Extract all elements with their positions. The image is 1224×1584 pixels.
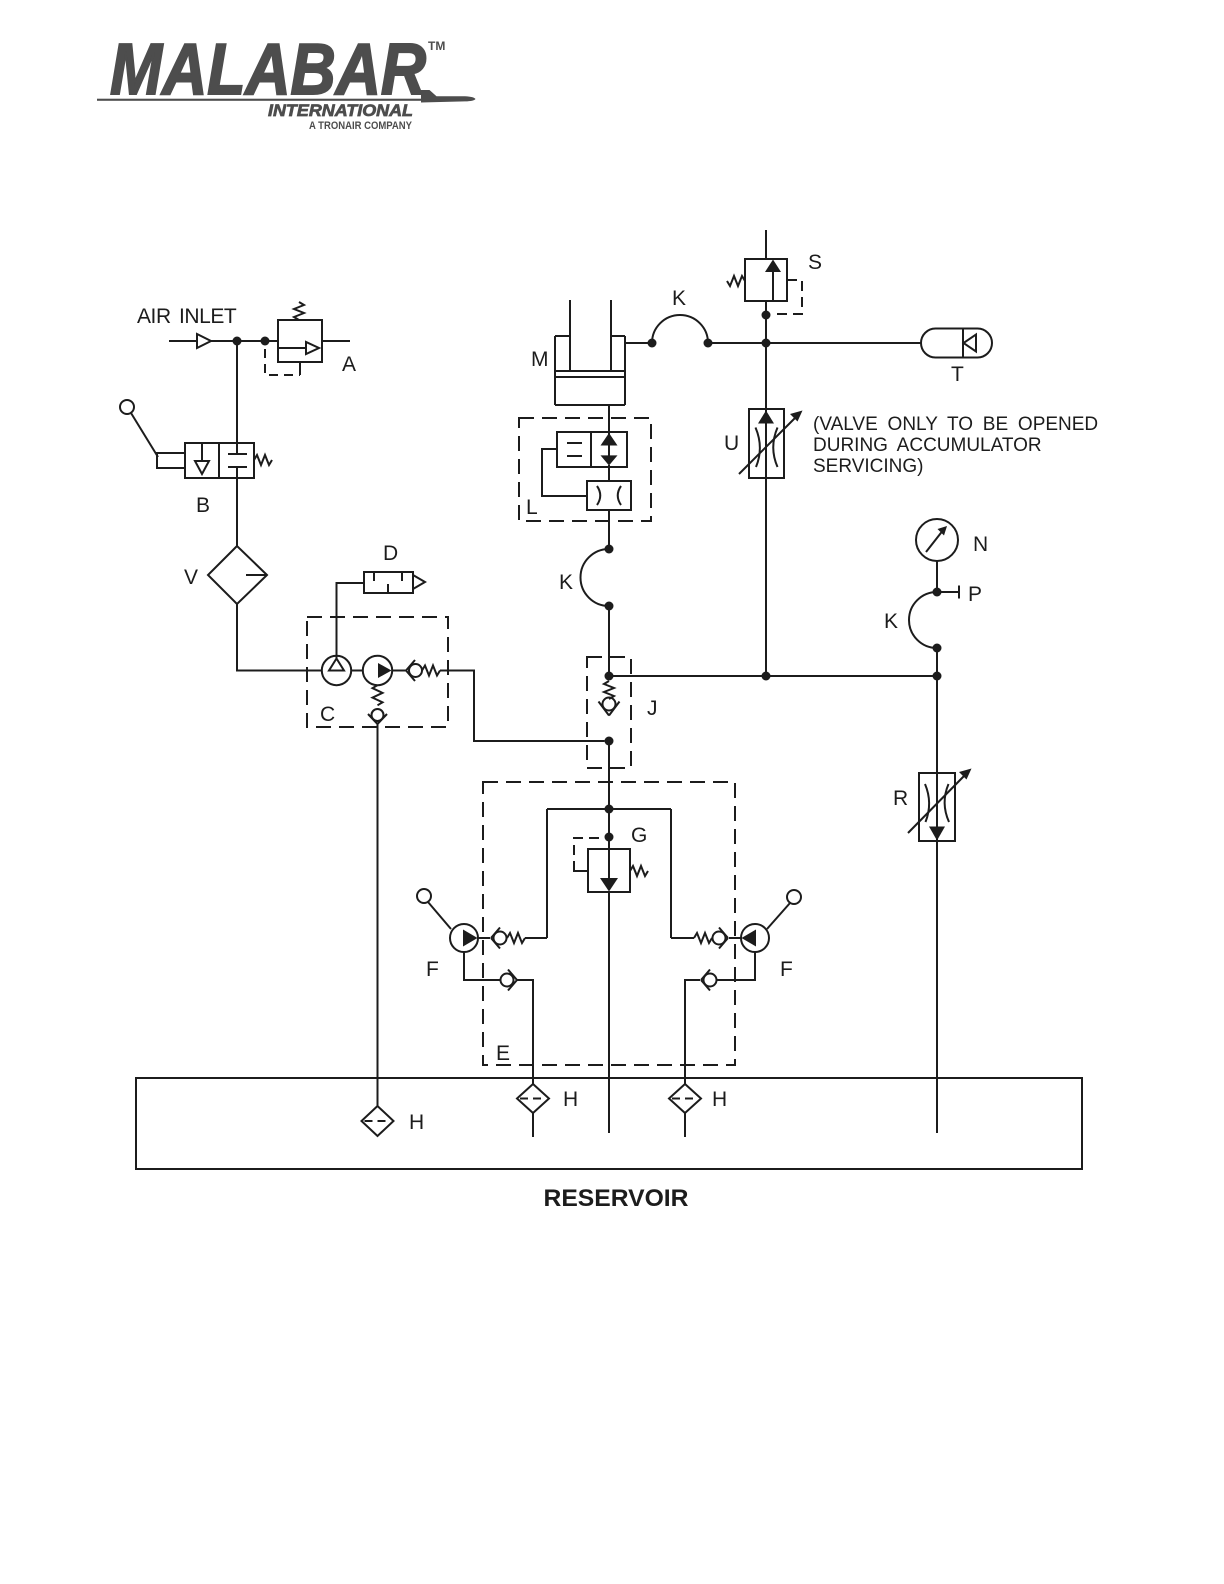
- pump C suction spring: [373, 685, 383, 705]
- quick-disconnect D body: [364, 572, 413, 593]
- svg-text:C: C: [320, 703, 335, 726]
- relief valve S body: [745, 259, 787, 301]
- check valve J enclosure: [587, 657, 631, 768]
- node J outlet: [605, 737, 614, 746]
- solenoid valve L enclosure: [519, 418, 651, 521]
- wire G to reservoir: [608, 892, 610, 1133]
- valve B right position box: [219, 443, 254, 478]
- wire L outlet: [608, 510, 610, 549]
- valve B blocked ports: [228, 453, 247, 455]
- svg-text:H: H: [712, 1088, 727, 1111]
- solenoid valve L poppet: [591, 432, 627, 467]
- node hose K end: [704, 339, 713, 348]
- check valve F right suction: [704, 974, 717, 987]
- svg-text:P: P: [968, 583, 982, 606]
- valve B spring: [254, 455, 272, 465]
- node inlet junction: [233, 337, 242, 346]
- wire manifold to valve R: [936, 676, 938, 841]
- wire F right suction to reservoir: [685, 980, 700, 1084]
- svg-text:INTERNATIONAL: INTERNATIONAL: [268, 102, 413, 120]
- node regulator tap junction: [261, 337, 270, 346]
- cylinder M port wire: [625, 342, 652, 344]
- flow control R body: [919, 773, 955, 841]
- svg-text:F: F: [426, 958, 439, 981]
- regulator A body: [278, 320, 322, 362]
- strainer H right: [669, 1084, 701, 1113]
- node gauge port: [933, 588, 942, 597]
- svg-text:A: A: [342, 353, 356, 376]
- wire F left suction to reservoir: [517, 980, 533, 1084]
- svg-text:E: E: [496, 1042, 510, 1065]
- svg-text:D: D: [383, 542, 398, 565]
- air motor C: [322, 656, 351, 685]
- check valve F right outlet: [719, 928, 728, 949]
- svg-text:RESERVOIR: RESERVOIR: [544, 1185, 689, 1212]
- filter V diamond: [208, 546, 267, 604]
- wire J to hand pump manifold: [608, 741, 610, 849]
- svg-text:F: F: [780, 958, 793, 981]
- svg-text:SERVICING): SERVICING): [813, 456, 924, 477]
- spring F left outlet: [507, 933, 525, 943]
- spring F right outlet: [694, 933, 712, 943]
- hand pump manifold enclosure E: [483, 782, 735, 1065]
- check valve J ball: [603, 698, 616, 711]
- svg-text:G: G: [631, 824, 647, 847]
- wire valve B to filter V: [236, 478, 238, 546]
- wire F right suction: [717, 952, 755, 980]
- node manifold right: [933, 672, 942, 681]
- wire header to valve U: [765, 343, 767, 478]
- valve B lever knob: [120, 400, 134, 414]
- wire F left to header: [525, 937, 547, 939]
- relief valve G spring: [630, 866, 648, 876]
- needle valve U adjust arrow: [739, 417, 796, 474]
- wire header right branch: [670, 809, 672, 938]
- svg-text:A TRONAIR COMPANY: A TRONAIR COMPANY: [309, 120, 413, 132]
- svg-text:TM: TM: [428, 39, 445, 53]
- valve B vent arrow: [201, 443, 203, 461]
- wire inlet to regulator A: [211, 340, 278, 342]
- svg-text:N: N: [973, 533, 988, 556]
- logo underline: [97, 99, 425, 101]
- check valve C suction: [372, 709, 384, 721]
- gauge N: [916, 519, 958, 561]
- solenoid valve L coil: [557, 432, 591, 467]
- svg-text:M: M: [531, 348, 549, 371]
- wire K to manifold: [936, 648, 938, 676]
- test port P: [941, 591, 959, 593]
- air inlet arrow: [197, 334, 211, 348]
- svg-text:K: K: [559, 571, 573, 594]
- wire L drop from cylinder: [608, 405, 610, 432]
- node header junction: [762, 339, 771, 348]
- node J inlet: [605, 672, 614, 681]
- pump unit C enclosure: [307, 617, 448, 727]
- relief valve S pilot: [772, 280, 802, 314]
- wire C suction to reservoir: [377, 724, 379, 1106]
- accumulator T shell: [921, 329, 992, 358]
- valve B actuator bracket: [157, 453, 185, 468]
- valve B left position box: [185, 443, 219, 478]
- svg-text:V: V: [184, 566, 198, 589]
- cylinder M rods: [569, 300, 571, 370]
- node hose K mid top: [605, 545, 614, 554]
- wire F right to header: [671, 937, 694, 939]
- cylinder M gland collars: [555, 335, 570, 337]
- wire main header: [708, 342, 921, 344]
- regulator A outlet wire: [322, 340, 350, 342]
- check valve J spring: [604, 681, 614, 699]
- hose K right: [909, 592, 937, 648]
- cylinder M barrel: [554, 336, 556, 405]
- wire air inlet: [169, 340, 197, 342]
- relief valve G body: [588, 849, 630, 892]
- valve B lever arm: [131, 413, 158, 457]
- solenoid valve L pilot wire: [542, 449, 587, 496]
- svg-text:J: J: [647, 697, 658, 720]
- node S pilot junction: [762, 311, 771, 320]
- relief valve G pilot: [574, 838, 599, 868]
- strainer H left: [362, 1106, 394, 1136]
- svg-text:B: B: [196, 494, 210, 517]
- svg-text:H: H: [563, 1088, 578, 1111]
- wire header left branch: [546, 809, 548, 938]
- check valve F left suction: [501, 974, 514, 987]
- wire C outlet to valve J: [440, 671, 605, 742]
- reservoir tank: [136, 1078, 1082, 1169]
- relief valve S spring: [727, 276, 745, 286]
- node M port: [648, 339, 657, 348]
- svg-text:K: K: [884, 610, 898, 633]
- check valve C outlet spring: [422, 666, 440, 676]
- svg-text:L: L: [526, 496, 538, 519]
- wire K to check valve J: [608, 606, 610, 676]
- node manifold U branch: [762, 672, 771, 681]
- regulator A spring: [294, 302, 304, 320]
- wire pump to check valve: [392, 670, 406, 672]
- wire manifold cross: [609, 675, 937, 677]
- check valve F left outlet: [491, 928, 500, 949]
- wire F right outlet: [729, 937, 741, 939]
- logo airplane: [421, 90, 476, 103]
- wire F left suction: [464, 952, 500, 980]
- node hose K right bottom: [933, 644, 942, 653]
- wire quick-disconnect D drop: [337, 583, 365, 659]
- wire valve U to manifold: [765, 478, 767, 676]
- svg-text:DURING ACCUMULATOR: DURING ACCUMULATOR: [813, 435, 1042, 456]
- svg-text:R: R: [893, 787, 908, 810]
- wire inlet down to valve B: [236, 341, 238, 443]
- wire R to reservoir: [936, 841, 938, 1133]
- restrictor L: [587, 481, 631, 510]
- wire motor to pump: [351, 670, 363, 672]
- strainer H center: [532, 1083, 534, 1085]
- svg-text:AIR INLET: AIR INLET: [137, 305, 237, 328]
- check valve C outlet: [406, 660, 415, 681]
- node pump header junction: [605, 805, 614, 814]
- svg-text:U: U: [724, 432, 739, 455]
- svg-text:MALABAR: MALABAR: [110, 30, 426, 110]
- node hose K mid bottom: [605, 602, 614, 611]
- node relief G tap: [605, 833, 614, 842]
- hand pump F right lever: [787, 890, 801, 904]
- svg-text:H: H: [409, 1111, 424, 1134]
- wire gauge N drop: [936, 561, 938, 592]
- hand pump F right: [741, 924, 769, 952]
- svg-text:(VALVE ONLY TO BE OPENED: (VALVE ONLY TO BE OPENED: [813, 414, 1098, 435]
- svg-text:T: T: [951, 363, 964, 386]
- wire hand pump header: [547, 808, 671, 810]
- hydraulic pump C: [363, 656, 392, 685]
- wire F left outlet: [478, 937, 490, 939]
- hand pump F left lever: [417, 889, 431, 903]
- hand pump F left: [450, 924, 478, 952]
- wire S to header: [765, 301, 767, 343]
- flow control R adjust arrow: [908, 775, 965, 833]
- relief valve S vent: [765, 230, 767, 259]
- needle valve U body: [749, 409, 784, 478]
- svg-text:S: S: [808, 251, 822, 274]
- wire filter V to motor C: [237, 604, 322, 671]
- hose K upper: [652, 315, 708, 343]
- regulator A pilot line: [265, 349, 300, 375]
- hose K middle: [581, 549, 610, 606]
- svg-text:K: K: [672, 287, 686, 310]
- regulator A internal flow arrow: [278, 347, 306, 349]
